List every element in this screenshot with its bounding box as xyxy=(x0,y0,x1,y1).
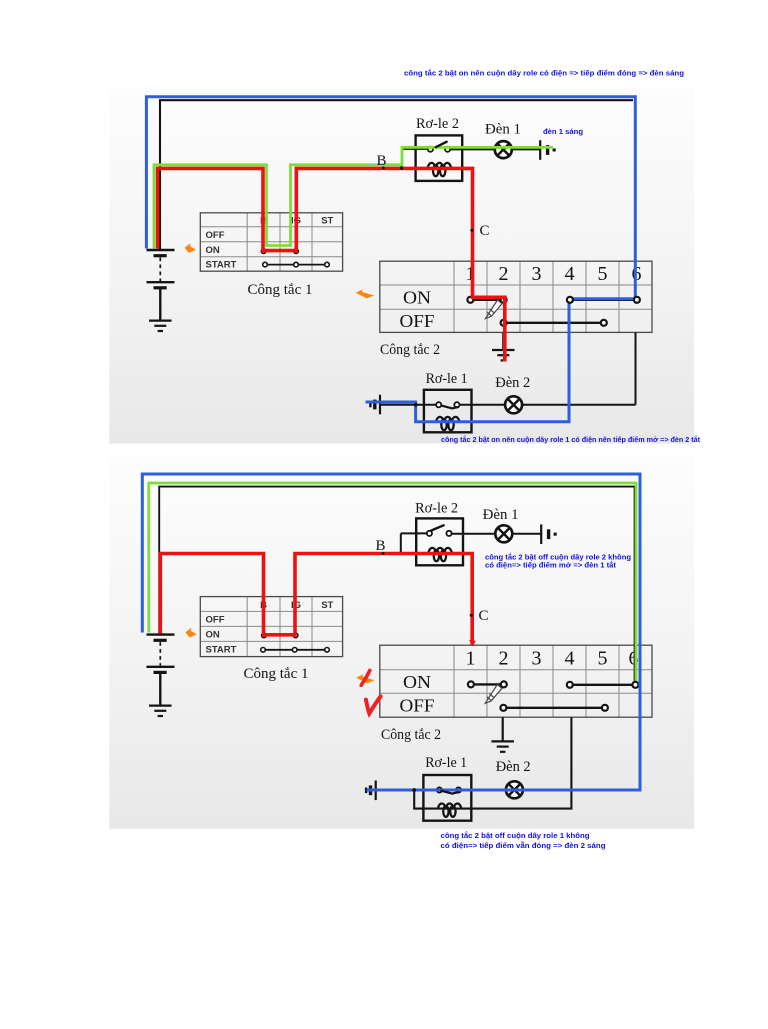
svg-text:B: B xyxy=(375,538,385,554)
link START row contacts xyxy=(265,264,327,266)
relay 2 contact right xyxy=(445,147,450,152)
contact 5 OFF xyxy=(601,320,607,326)
wire up to table bottom col 6 xyxy=(635,332,637,404)
lamp Den 1 (panel 2) xyxy=(495,525,512,542)
contact 6 ON xyxy=(634,297,640,303)
svg-text:ON: ON xyxy=(403,288,431,308)
contact 2 ON xyxy=(501,297,507,303)
battery (panel 1) xyxy=(147,250,175,321)
relay 2 contact left xyxy=(428,147,433,152)
contact 2 ON (panel 2) xyxy=(501,681,507,687)
orange arrow at Cong tac 2 (panel 1) xyxy=(356,289,375,298)
contact IG ON (Cong tac 1) xyxy=(294,249,299,254)
relay 1 coil (panel 2) xyxy=(438,803,461,816)
wire relay 1 contact to lamp Den 2 to right xyxy=(459,404,635,406)
contact B START (panel 2) xyxy=(261,648,266,653)
ground below contact 2 (panel 2) xyxy=(491,717,514,752)
relay 2 contact right (panel 2) xyxy=(446,531,451,536)
svg-text:ST: ST xyxy=(321,216,333,227)
svg-text:Công tắc 1: Công tắc 1 xyxy=(244,666,309,682)
contact B START xyxy=(263,262,268,267)
panel 2 background xyxy=(109,455,694,829)
red arrowhead at table top xyxy=(469,640,476,647)
wire terminal to relay 1 contact xyxy=(380,404,437,406)
contact 5 OFF (panel 2) xyxy=(602,705,608,711)
red X slash over arrow xyxy=(361,670,370,685)
svg-text:2: 2 xyxy=(499,648,509,670)
node junction at relay 1 input (panel 2) xyxy=(412,788,416,792)
svg-text:START: START xyxy=(206,644,237,655)
contact IG ON (Cong tac 1 panel 2) xyxy=(293,633,298,638)
svg-text:Đèn 1: Đèn 1 xyxy=(485,122,521,138)
svg-text:có điện=> tiếp điểm mở => đèn: có điện=> tiếp điểm mở => đèn 1 tắt xyxy=(485,561,617,570)
battery terminal at relay 1 (panel 2) xyxy=(366,781,376,801)
lamp Den 1 (panel 1) xyxy=(495,141,512,158)
svg-text:ST: ST xyxy=(321,600,333,611)
node C tick (panel 2) xyxy=(470,614,473,617)
relay Ro-le 2 (panel 2) xyxy=(416,518,463,565)
battery terminal at Den 1 (panel 2) xyxy=(541,524,556,544)
svg-text:Đèn 2: Đèn 2 xyxy=(496,759,531,775)
svg-text:OFF: OFF xyxy=(400,311,435,331)
contact 1 ON (panel 2) xyxy=(468,681,474,687)
node B tick (panel 2) xyxy=(382,552,385,555)
contact 2 OFF xyxy=(501,320,507,326)
svg-text:5: 5 xyxy=(598,263,608,285)
svg-text:B: B xyxy=(376,153,386,169)
relay 2 coil (panel 1) xyxy=(428,163,451,176)
wire relay 1 coil to table col 4 (panel 2) xyxy=(414,717,571,808)
node B tick xyxy=(382,166,385,169)
contact 6 ON (panel 2) xyxy=(632,682,638,688)
svg-text:2: 2 xyxy=(499,263,509,285)
link contacts 2-5 OFF row (panel 2) xyxy=(503,707,605,709)
svg-text:Công tắc 2: Công tắc 2 xyxy=(381,727,441,743)
relay 1 coil (panel 1) xyxy=(436,417,459,430)
ground below battery (panel 1) xyxy=(149,289,172,332)
wire relay 2 contact to lamp Den 1 (panel 2) xyxy=(451,533,541,535)
link contacts 2-5 OFF row xyxy=(504,322,604,324)
svg-text:công tắc 2 bật off cuộn dây ro: công tắc 2 bật off cuộn dây role 1 không xyxy=(441,831,591,840)
wire battery+ to top rail xyxy=(160,100,633,249)
svg-text:Rơ-le 2: Rơ-le 2 xyxy=(416,116,459,132)
orange arrow at Cong tac 1 (panel 1) xyxy=(185,243,196,253)
pencil mark at contact 2 (panel 1) xyxy=(486,300,503,319)
relay 2 contact left (panel 2) xyxy=(427,531,432,536)
switch table Cong tac 1 (panel 1) xyxy=(200,213,342,271)
link START row contacts (panel 2) xyxy=(263,649,327,651)
lamp Den 2 (panel 1) xyxy=(505,396,522,413)
svg-text:3: 3 xyxy=(532,263,542,285)
link contacts 4-6 ON row xyxy=(570,299,637,301)
svg-text:ON: ON xyxy=(206,245,220,256)
relay Ro-le 2 (panel 1) xyxy=(416,135,463,181)
ground below contact 2 (panel 1) xyxy=(492,332,515,360)
svg-text:Đèn 2: Đèn 2 xyxy=(495,375,530,391)
svg-text:ON: ON xyxy=(403,672,431,692)
svg-text:Rơ-le 2: Rơ-le 2 xyxy=(415,500,458,516)
wire riser from B line to contact xyxy=(400,533,402,552)
switch table Cong tac 2 (panel 2) xyxy=(380,645,652,717)
svg-text:Đèn 1: Đèn 1 xyxy=(483,507,519,523)
panel 1 background xyxy=(109,88,694,444)
switch table Cong tac 2 (panel 1) xyxy=(380,261,652,332)
wire terminal to relay 1 contact (panel 2) xyxy=(377,789,437,791)
svg-text:có điện=> tiếp điểm vẫn đóng: có điện=> tiếp điểm vẫn đóng => đèn 2 sá… xyxy=(441,841,607,850)
relay 2 blade (panel 2) xyxy=(431,525,443,530)
svg-text:công tắc 2 bật on nên cuộn dây: công tắc 2 bật on nên cuộn dây role có đ… xyxy=(404,69,684,78)
blue wire loop top rail to contact 6-4 to relay 1 coil to terminal xyxy=(146,97,635,422)
relay 2 coil (panel 2) xyxy=(428,548,451,561)
wire relay 1 contact to lamp Den 2 (panel 2) xyxy=(459,789,640,791)
ground below battery (panel 2) xyxy=(149,674,172,717)
contact B ON (Cong tac 1) xyxy=(261,249,266,254)
svg-text:3: 3 xyxy=(532,648,542,670)
link contacts 1-2 ON row xyxy=(470,299,503,301)
svg-text:OFF: OFF xyxy=(206,230,225,241)
battery (panel 2) xyxy=(147,635,175,706)
contact 1 ON xyxy=(467,297,473,303)
wire relay 2 contact to lamp Den 1 to terminal xyxy=(450,148,540,150)
contact 4 ON (panel 2) xyxy=(567,682,573,688)
contact 2 OFF (panel 2) xyxy=(500,705,506,711)
svg-text:OFF: OFF xyxy=(400,696,435,716)
relay 2 blade (panel 1) xyxy=(436,142,447,147)
relay 1 contact left xyxy=(436,402,441,407)
svg-text:4: 4 xyxy=(565,263,575,285)
svg-text:OFF: OFF xyxy=(206,614,225,625)
wire stub into relay 2 contact (panel 2) xyxy=(401,532,428,534)
link contacts 4-6 ON row (panel 2) xyxy=(570,684,636,686)
green wire battery to top rail to contact 6 (panel 2) xyxy=(149,483,636,685)
svg-text:1: 1 xyxy=(466,648,476,670)
link contacts 1-2 ON row (panel 2) xyxy=(471,683,504,685)
contact IG START (panel 2) xyxy=(292,648,297,653)
red wire battery through Cong tac 1 ON to relay 2 coil to contact 1-2 to ground xyxy=(158,168,505,361)
contact B ON (Cong tac 1 panel 2) xyxy=(262,633,267,638)
relay 1 blade (panel 2) xyxy=(441,791,458,794)
svg-text:5: 5 xyxy=(598,648,608,670)
contact 4 ON xyxy=(567,297,573,303)
contact ST START (panel 2) xyxy=(325,648,330,653)
relay 1 contact left (panel 2) xyxy=(437,787,442,792)
svg-text:đèn 1 sáng: đèn 1 sáng xyxy=(543,127,583,136)
red wire battery through Cong tac 1 ON to relay 2 coil down to table top (panel 2) xyxy=(160,554,472,645)
orange arrow at Cong tac 1 (panel 2) xyxy=(185,628,196,638)
svg-text:Công tắc 1: Công tắc 1 xyxy=(248,282,313,298)
wire battery+ to top rail to contact 6 (panel 2) xyxy=(159,487,634,685)
red checkmark at OFF row xyxy=(366,696,381,713)
svg-text:Công tắc 2: Công tắc 2 xyxy=(380,342,440,358)
svg-text:4: 4 xyxy=(565,648,575,670)
node C tick xyxy=(470,229,473,232)
contact ST START xyxy=(325,262,330,267)
svg-text:Rơ-le 1: Rơ-le 1 xyxy=(426,371,468,387)
battery terminal at relay 1 (panel 1) xyxy=(370,395,380,415)
svg-text:ON: ON xyxy=(206,629,220,640)
green wire battery to relay 2 contact to lamp xyxy=(154,147,553,248)
node junction at relay 1 input xyxy=(414,403,418,407)
relay Ro-le 1 (panel 1) xyxy=(424,390,472,433)
orange arrow (crossed) at ON row (panel 2) xyxy=(356,674,375,683)
pencil mark at contact 2 (panel 2) xyxy=(485,685,502,704)
battery terminal at Den 1 (panel 1) xyxy=(540,140,555,160)
wire stub into relay 2 contact xyxy=(402,148,428,150)
svg-text:C: C xyxy=(478,608,488,624)
node junction green riser at B xyxy=(400,166,404,170)
relay Ro-le 1 (panel 2) xyxy=(423,775,471,821)
relay 1 blade open (panel 1) xyxy=(441,406,458,409)
blue wire battery to top rail to relay 1 row (panel 2) xyxy=(142,474,640,790)
svg-text:công tắc 2 bật on nên cuộn dây: công tắc 2 bật on nên cuộn dây role 1 có… xyxy=(441,435,701,444)
switch table Cong tac 1 (panel 2) xyxy=(200,597,342,657)
lamp Den 2 (panel 2) xyxy=(506,781,523,798)
contact IG START xyxy=(294,262,299,267)
relay 1 contact right (panel 2) xyxy=(456,787,461,792)
svg-text:C: C xyxy=(479,223,489,239)
svg-text:Rơ-le 1: Rơ-le 1 xyxy=(425,755,467,771)
relay 1 contact right xyxy=(454,402,459,407)
svg-text:START: START xyxy=(206,260,237,271)
